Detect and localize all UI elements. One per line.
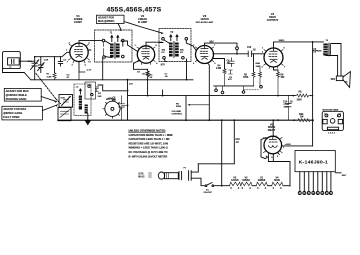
tube V3 envelope bbox=[196, 46, 214, 64]
pin stubs V3 bbox=[195, 47, 214, 62]
resistor R5 470K (V4 grid) bbox=[243, 54, 255, 86]
svg-text:1: 1 bbox=[283, 147, 285, 149]
V5 pin numbers 4 3 5 bbox=[266, 155, 279, 159]
svg-text:97V: 97V bbox=[161, 65, 166, 67]
wire AVC top line over V2 bbox=[146, 42, 162, 46]
svg-text:R8: R8 bbox=[299, 92, 303, 94]
T1 core bbox=[113, 43, 116, 59]
tube V1 internals bbox=[75, 43, 83, 57]
capacitor C2 56pf bbox=[58, 57, 67, 66]
value label T1 bbox=[110, 33, 113, 35]
svg-text:3: 3 bbox=[308, 193, 309, 195]
svg-text:5: 5 bbox=[230, 187, 232, 190]
speaker socket BOTTOM VIEW bbox=[322, 110, 343, 135]
svg-text:12BA6: 12BA6 bbox=[242, 179, 250, 182]
dashed gang linkage line bbox=[36, 74, 61, 104]
wire top signal line to V1 grid bbox=[35, 52, 70, 56]
L2 winding upper bbox=[79, 96, 82, 110]
value label C15B 30MF bbox=[284, 104, 290, 109]
T2 core bbox=[173, 42, 176, 58]
svg-text:7: 7 bbox=[67, 62, 69, 64]
svg-text:RESISTORS ARE 1/2 WATT, 10%: RESISTORS ARE 1/2 WATT, 10% bbox=[129, 141, 169, 145]
svg-text:1 2 3 4: 1 2 3 4 bbox=[328, 131, 335, 134]
wire x=162.6 stub bbox=[162, 90, 164, 96]
svg-text:R9: R9 bbox=[281, 74, 285, 76]
speaker SP1 bbox=[331, 72, 351, 88]
value label L2 OSC bbox=[61, 87, 80, 100]
heater V3 12AV6 bbox=[230, 182, 241, 186]
resistor R7 470K bbox=[259, 66, 263, 88]
svg-text:8: 8 bbox=[330, 193, 331, 195]
B- bus line y=120.2 bbox=[58, 119, 314, 121]
T1 primary winding bbox=[110, 44, 114, 58]
pin numbers V3 bbox=[193, 45, 216, 65]
wire osc B+ branch bbox=[98, 85, 128, 91]
svg-text:6: 6 bbox=[90, 62, 92, 64]
svg-text:WINDING = LESS THAN 1,200 Ω: WINDING = LESS THAN 1,200 Ω bbox=[129, 146, 168, 150]
svg-text:1K: 1K bbox=[150, 77, 153, 79]
value label C1A bbox=[28, 60, 33, 63]
svg-text:60 AC: 60 AC bbox=[138, 176, 145, 179]
svg-text:2.2M: 2.2M bbox=[47, 76, 52, 78]
output transformer T3 bbox=[323, 40, 330, 56]
svg-text:2: 2 bbox=[193, 63, 195, 65]
svg-text:5: 5 bbox=[277, 156, 279, 158]
svg-text:1000: 1000 bbox=[297, 100, 303, 102]
V3 cathode lead down bbox=[208, 63, 210, 120]
plate terminal circle bbox=[236, 47, 239, 50]
svg-text:12AV6: 12AV6 bbox=[200, 17, 209, 21]
resistor R10 56 ohm 2W in bus bbox=[298, 114, 310, 122]
svg-text:2: 2 bbox=[262, 67, 264, 69]
svg-text:10M: 10M bbox=[256, 66, 260, 68]
wire T3 secondary to speaker bbox=[323, 54, 337, 76]
svg-text:4: 4 bbox=[313, 192, 314, 195]
V2 cathode resistor to bus bbox=[146, 69, 149, 95]
svg-text:ROCKING GANG: ROCKING GANG bbox=[6, 97, 27, 101]
svg-text:6: 6 bbox=[284, 48, 286, 50]
filament string heaters bbox=[230, 177, 291, 191]
capacitor C8A plates bbox=[229, 58, 235, 67]
svg-text:+105V: +105V bbox=[285, 144, 292, 146]
connector pin leads bbox=[300, 172, 331, 192]
svg-text:T1: T1 bbox=[110, 33, 113, 35]
svg-text:K-146J90-1: K-146J90-1 bbox=[299, 160, 328, 166]
svg-text:1: 1 bbox=[299, 193, 300, 195]
wire V3 plate load bbox=[205, 43, 238, 47]
svg-text:3: 3 bbox=[242, 187, 244, 190]
tube V5 internals bbox=[269, 136, 278, 147]
wire T1 secondary top to AVC line bbox=[121, 41, 128, 46]
T1 secondary winding bbox=[116, 44, 120, 58]
svg-text:6: 6 bbox=[322, 193, 323, 195]
svg-text:.05: .05 bbox=[165, 76, 169, 78]
svg-text:WHT: WHT bbox=[342, 175, 347, 177]
svg-text:2W: 2W bbox=[300, 116, 304, 118]
interlock plug P1 bbox=[184, 164, 206, 186]
svg-text:UNLESS OTHERWISE NOTED:: UNLESS OTHERWISE NOTED: bbox=[129, 128, 167, 132]
svg-text:CONV: CONV bbox=[74, 20, 82, 24]
value label C7 .05 bbox=[165, 74, 169, 79]
svg-text:6: 6 bbox=[156, 63, 158, 65]
svg-text:R1: R1 bbox=[47, 74, 51, 76]
power switch S1 on volume bbox=[204, 183, 214, 194]
wire between heaters bbox=[252, 185, 256, 187]
svg-text:4: 4 bbox=[265, 187, 267, 190]
node dot B+ x=127.5 bbox=[127, 79, 129, 81]
tube V4 internals bbox=[269, 48, 277, 62]
svg-text:.04: .04 bbox=[236, 141, 240, 144]
unless otherwise noted notes bbox=[129, 128, 174, 158]
leader arrow from 620KC box to osc trimmer bbox=[42, 105, 57, 111]
svg-text:117V.: 117V. bbox=[138, 173, 144, 175]
trimmer capacitor C2 bbox=[38, 57, 45, 73]
capacitor C12 2000 across primary bbox=[313, 48, 323, 52]
svg-text:RECT: RECT bbox=[268, 128, 276, 132]
callout box: ADJUST FOR MAX @1620KC WHILE ROCKING GANG bbox=[4, 88, 41, 101]
svg-text:C6: C6 bbox=[137, 72, 141, 74]
tube label V2 12BA6 IF AMP bbox=[138, 14, 148, 24]
wire V1 cathode to osc cluster bbox=[79, 72, 85, 80]
leader arrow to T1 bbox=[118, 24, 121, 31]
wire T1 primary bottom to B+ bbox=[103, 57, 112, 80]
osc grid cap C4 bbox=[95, 89, 98, 92]
svg-text:5: 5 bbox=[317, 193, 318, 195]
tube V1 envelope bbox=[70, 43, 88, 61]
resistor R4 2.2M (V3 grid leak) bbox=[213, 59, 230, 86]
osc terminal circles bbox=[88, 85, 90, 87]
wire V2 plate to T2 primary bbox=[159, 40, 169, 43]
T2 terminal circles bbox=[162, 38, 165, 41]
svg-text:7: 7 bbox=[326, 193, 327, 195]
wire between heaters bbox=[268, 185, 272, 187]
svg-text:1: 1 bbox=[262, 48, 264, 50]
svg-text:R4: R4 bbox=[218, 64, 222, 67]
resistor R8 1000 in line bbox=[297, 92, 311, 102]
svg-text:2000: 2000 bbox=[317, 50, 322, 52]
heater V1 12BE6 bbox=[256, 182, 267, 186]
tube label V1 12BE6 CONV bbox=[74, 14, 83, 24]
svg-text:1: 1 bbox=[66, 50, 68, 52]
svg-text:4: 4 bbox=[249, 187, 251, 190]
wire screen dropper x=127.5 bbox=[127, 80, 129, 121]
voltage label -1.1V bbox=[86, 70, 92, 72]
osc grid cluster box bbox=[85, 82, 96, 99]
tube V5 envelope bbox=[264, 136, 282, 154]
svg-text:-1.1V: -1.1V bbox=[86, 70, 92, 72]
svg-text:7: 7 bbox=[284, 67, 286, 69]
B- drop to heater line bbox=[221, 120, 223, 186]
B+ feed line y=79.5 bbox=[31, 79, 193, 81]
svg-text:4Ω: 4Ω bbox=[345, 81, 348, 84]
value label R2 22K bbox=[98, 93, 114, 100]
node junction at C1A bbox=[34, 56, 36, 58]
pin numbers V4 bbox=[262, 48, 287, 69]
svg-text:22K: 22K bbox=[98, 96, 102, 98]
wire heater string to V5 bbox=[283, 185, 290, 187]
svg-text:12AV6: 12AV6 bbox=[231, 179, 239, 182]
svg-text:4: 4 bbox=[238, 187, 240, 190]
svg-text:470K: 470K bbox=[243, 76, 249, 79]
svg-text:50C5: 50C5 bbox=[274, 179, 280, 182]
V1 pin leads bbox=[78, 62, 80, 73]
svg-text:@1620KC WHILE: @1620KC WHILE bbox=[6, 93, 27, 97]
resistor R1 2.2M bbox=[47, 57, 57, 80]
T1 slug adjust arrows bbox=[111, 36, 113, 42]
pin numbers V2 bbox=[134, 45, 158, 65]
svg-text:12V: 12V bbox=[129, 84, 133, 86]
dashed AVC link bbox=[244, 89, 259, 91]
V2 cathode loop wiring bbox=[134, 61, 148, 70]
wire T2 primary bottom to B+ line bbox=[164, 59, 187, 80]
svg-text:IF AMP: IF AMP bbox=[138, 20, 148, 24]
AVC line y=95.6 bbox=[128, 95, 295, 97]
svg-text:KC: KC bbox=[180, 52, 184, 54]
node dots on AVC line bbox=[162, 95, 164, 97]
value label C3 47 bbox=[67, 75, 71, 80]
ground arrow below osc bbox=[86, 114, 91, 125]
pin stubs V4 bbox=[264, 50, 284, 69]
svg-text:L2: L2 bbox=[76, 87, 79, 89]
tube label V3 12AV6 DET-AUDIO AMP bbox=[196, 14, 214, 24]
T2 secondary winding bbox=[175, 43, 179, 57]
tube V3 internals bbox=[200, 46, 208, 60]
svg-text:CONTROL: CONTROL bbox=[172, 114, 183, 116]
capacitor C14 .02 line bypass bbox=[283, 96, 293, 121]
svg-text:KC: KC bbox=[162, 52, 166, 54]
tube V4 envelope bbox=[264, 48, 283, 67]
svg-text:@620KC GANG: @620KC GANG bbox=[3, 111, 22, 115]
coupling capacitor C10 .02 bbox=[248, 51, 251, 57]
wire V5 heater pin stub bbox=[278, 153, 280, 155]
capacitor C9 detector bbox=[229, 70, 233, 74]
value label C6 .05 near V2 bbox=[137, 72, 146, 76]
svg-text:.02: .02 bbox=[253, 49, 257, 51]
node dot B+ at T3 bbox=[312, 41, 314, 43]
wire antenna to tuning cap bbox=[19, 60, 35, 62]
wire V1 plate to T1 primary bbox=[79, 41, 110, 50]
padder trimmer arrow bbox=[62, 96, 71, 105]
svg-text:5: 5 bbox=[89, 43, 91, 45]
tube label V5 35W4 RECT bbox=[268, 122, 276, 132]
node dot B+ x=186.5 bbox=[186, 79, 188, 81]
leader arrow to T2 bbox=[124, 22, 163, 34]
svg-text:VOLUME: VOLUME bbox=[172, 111, 182, 113]
svg-text:ADJUST FOR MAX: ADJUST FOR MAX bbox=[3, 107, 26, 111]
svg-text:FULLY OPEN: FULLY OPEN bbox=[3, 115, 19, 119]
terminal circles on detector line bbox=[215, 89, 218, 92]
wire V5 heater pin to filament string bbox=[268, 154, 290, 186]
svg-text:2: 2 bbox=[69, 43, 71, 45]
svg-text:7: 7 bbox=[214, 45, 216, 47]
antenna enclosure step outline bbox=[3, 69, 31, 80]
svg-text:SP1: SP1 bbox=[331, 78, 336, 81]
wire V5 plate to bus bbox=[272, 120, 274, 136]
svg-text:OSC: OSC bbox=[61, 98, 66, 100]
connector lead white bbox=[335, 172, 341, 174]
svg-text:DET-AUDIO AMP: DET-AUDIO AMP bbox=[196, 21, 214, 24]
svg-text:4: 4 bbox=[85, 64, 87, 67]
osc gang trimmer plates bbox=[61, 112, 69, 115]
tube V2 envelope bbox=[137, 46, 154, 63]
T2 slug adjust arrows bbox=[170, 35, 172, 41]
pin stubs V5 bbox=[263, 137, 282, 152]
connector block K-146J90-1 bbox=[295, 151, 335, 172]
L2 slug arrow bbox=[80, 89, 82, 94]
heater V2 12BA6 bbox=[241, 182, 252, 186]
svg-text:470K: 470K bbox=[108, 97, 114, 100]
AC line top wire bbox=[198, 163, 234, 165]
node dot at bus crossing bbox=[312, 119, 314, 121]
notes underline bbox=[129, 131, 166, 133]
svg-text:B- WITH 20,000 Ω/VOLT METER: B- WITH 20,000 Ω/VOLT METER bbox=[129, 154, 168, 158]
line bypass capacitor C16 drop bbox=[233, 120, 235, 164]
oscillator padder box bbox=[59, 95, 73, 108]
callout box: ADJUST FOR MAX @455KC bbox=[97, 15, 125, 23]
svg-text:2: 2 bbox=[262, 51, 264, 53]
svg-text:T2: T2 bbox=[170, 31, 174, 34]
svg-text:R6: R6 bbox=[176, 103, 180, 105]
svg-text:.05: .05 bbox=[142, 74, 146, 76]
svg-text:C4: C4 bbox=[96, 85, 99, 88]
T2 primary winding bbox=[169, 43, 173, 57]
svg-text:3: 3 bbox=[257, 187, 259, 190]
callout box: ADJUST FOR MAX @620KC GANG FULLY OPEN bbox=[2, 106, 43, 120]
svg-text:CAPACITORS LESS THAN 1 = MF: CAPACITORS LESS THAN 1 = MF bbox=[129, 137, 171, 141]
wire V5 cathode +105V to B+ riser bbox=[282, 145, 313, 147]
AC switched line to heater string bbox=[214, 185, 230, 187]
svg-text:4: 4 bbox=[273, 187, 275, 190]
svg-text:P1: P1 bbox=[184, 168, 187, 170]
pin number V5 plate bbox=[276, 136, 286, 149]
svg-text:3: 3 bbox=[280, 187, 282, 190]
tube label V4 50C5 OUTPUT bbox=[267, 12, 279, 22]
oscillator tuning gang box bbox=[58, 108, 71, 121]
svg-text:C1B: C1B bbox=[44, 60, 49, 62]
svg-text:5: 5 bbox=[156, 45, 158, 47]
capacitor C5 .05 bbox=[113, 96, 128, 120]
svg-text:150: 150 bbox=[281, 77, 286, 79]
wire V4 plate to output transformer bbox=[274, 42, 324, 48]
oscillator coil L2 dashed can bbox=[74, 84, 91, 115]
heater V4 50C5 bbox=[272, 182, 283, 186]
pin numbers V1 bbox=[67, 43, 92, 67]
value label R3 bbox=[150, 75, 154, 80]
wire T3 primary return wrap bbox=[331, 44, 341, 77]
svg-text:50V: 50V bbox=[210, 41, 215, 43]
leader arrow from 1620KC box to osc trimmer bbox=[41, 97, 56, 102]
pin stubs V1 bbox=[68, 44, 89, 63]
loop antenna coil bars bbox=[12, 59, 14, 63]
svg-text:CAPACITORS MORE THAN 1 = MMF: CAPACITORS MORE THAN 1 = MMF bbox=[129, 133, 174, 137]
svg-text:2: 2 bbox=[304, 193, 305, 195]
svg-text:500K: 500K bbox=[176, 106, 182, 108]
svg-text:C1A: C1A bbox=[28, 60, 33, 63]
IF transformer T1 dashed can bbox=[95, 30, 133, 62]
svg-text:ADJUST FOR MAX: ADJUST FOR MAX bbox=[6, 89, 29, 93]
svg-text:1: 1 bbox=[135, 45, 137, 47]
pin stubs V2 bbox=[137, 47, 155, 64]
svg-text:455S,456S,457S: 455S,456S,457S bbox=[107, 6, 162, 13]
svg-text:30MF: 30MF bbox=[284, 106, 290, 108]
T2 value labels 455KC bbox=[162, 49, 185, 54]
svg-text:7: 7 bbox=[134, 63, 136, 65]
svg-text:T3: T3 bbox=[326, 40, 329, 42]
svg-text:2.2M: 2.2M bbox=[216, 68, 221, 70]
wire T2 secondary to V3 grid bbox=[186, 40, 196, 50]
svg-text:OUTPUT: OUTPUT bbox=[267, 18, 279, 22]
svg-text:MAX @455KC: MAX @455KC bbox=[98, 20, 115, 23]
B+ riser wire x=312.6 bbox=[312, 42, 314, 146]
T1 terminal circles bbox=[102, 39, 105, 42]
loop antenna L1 inner box bbox=[8, 58, 20, 65]
resistor R9 150 (V4 cathode) bbox=[274, 67, 286, 96]
coupling line V3 to V4 bbox=[213, 53, 264, 55]
IF transformer T2 dashed can bbox=[159, 29, 191, 62]
bus node dots bbox=[185, 119, 187, 121]
loop antenna enclosure bbox=[3, 52, 21, 69]
V5 cathode side loop wire bbox=[261, 138, 268, 159]
svg-text:ON-OFF: ON-OFF bbox=[204, 192, 213, 194]
svg-text:12BE6: 12BE6 bbox=[258, 179, 266, 182]
svg-text:5: 5 bbox=[214, 63, 216, 65]
tube V2 internals bbox=[142, 46, 150, 59]
wire x=147.6 node bbox=[147, 95, 149, 97]
connector pin number circles bbox=[298, 192, 332, 195]
node dot x=127.5 y=105 bbox=[127, 104, 129, 106]
value label C1B bbox=[44, 60, 49, 62]
L2 winding lower bbox=[85, 105, 88, 114]
node dot at x=237 coupling bbox=[236, 53, 238, 55]
socket circle BOTTOM view bbox=[103, 99, 122, 118]
value label R4B 470K bbox=[256, 62, 261, 68]
svg-text:30KΩ: 30KΩ bbox=[279, 40, 285, 42]
variable capacitor C1A (ant tuning) bbox=[31, 57, 39, 80]
wire T1 secondary to V2 grid bbox=[128, 41, 138, 52]
svg-text:1: 1 bbox=[193, 45, 195, 47]
AC line cord 117V bbox=[138, 172, 181, 180]
svg-text:3: 3 bbox=[72, 65, 74, 67]
volume control R6 500K bbox=[172, 96, 210, 121]
svg-text:C10: C10 bbox=[247, 47, 252, 49]
svg-text:DC VOLTAGES @ 117V LINE TO: DC VOLTAGES @ 117V LINE TO bbox=[129, 150, 168, 154]
detector return line y=85.9 bbox=[214, 85, 254, 87]
value label 12V bbox=[129, 84, 133, 86]
svg-text:R4B: R4B bbox=[256, 62, 261, 65]
svg-text:R5: R5 bbox=[244, 74, 248, 76]
svg-text:.02: .02 bbox=[290, 101, 294, 103]
